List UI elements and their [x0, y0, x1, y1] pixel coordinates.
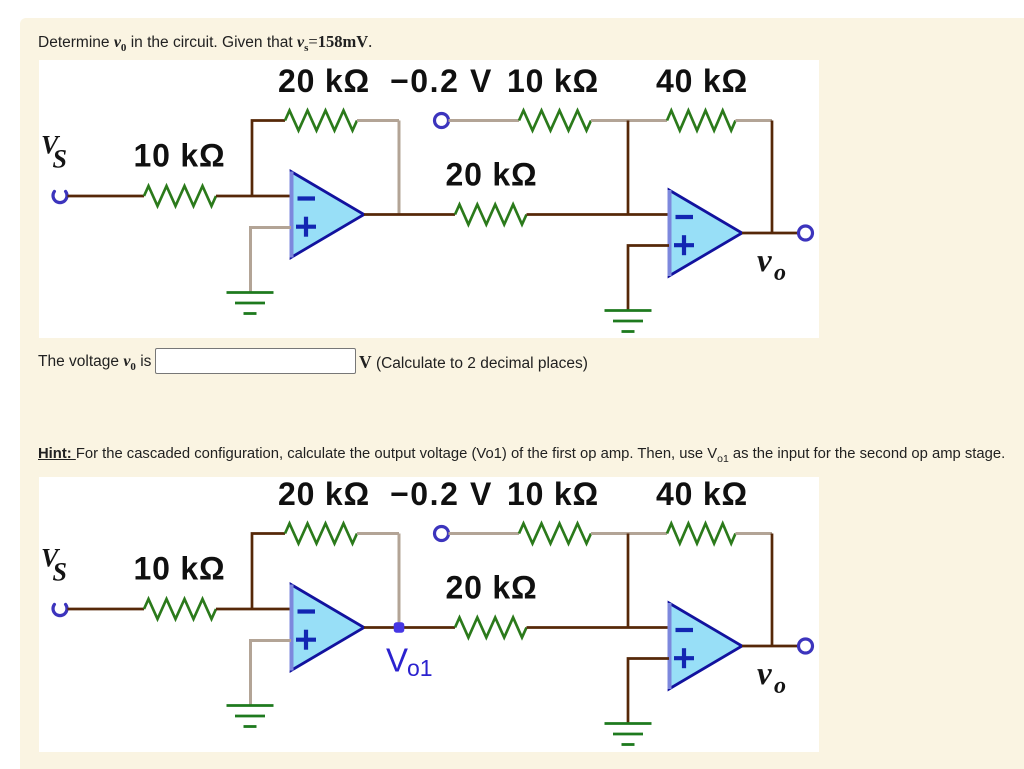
- wire: R2 to U1 output node (tan): [357, 119, 399, 122]
- label Vs source name: [41, 131, 67, 174]
- wire: feedback branch up from input node: [252, 121, 285, 197]
- svg-text:20 kΩ: 20 kΩ: [446, 157, 538, 193]
- label vo output voltage: [757, 243, 786, 286]
- resistor R5b 40k ohm feedback: [667, 524, 736, 544]
- op-amp U2a: [669, 190, 742, 276]
- wire: U1 output to R3: [364, 626, 455, 629]
- resistor R4a 10k ohm: [519, 111, 591, 131]
- resistor R2b 20k ohm feedback: [285, 524, 357, 544]
- resistor R2a 20k ohm feedback: [285, 111, 357, 131]
- wire: U1 output to R3: [364, 213, 455, 216]
- terminal: vo output (open circle): [799, 226, 813, 240]
- op-amp U1b: [291, 585, 364, 671]
- svg-text:V: V: [386, 642, 408, 679]
- wire: feedback down to U1 output (tan): [398, 534, 401, 628]
- wire: R3 to U2 inverting input: [527, 213, 670, 216]
- label Vo1 node voltage: [386, 642, 433, 682]
- resistor R5a 40k ohm feedback: [667, 111, 736, 131]
- svg-text:o: o: [774, 673, 786, 699]
- ground GND2b: [605, 724, 652, 745]
- op-amp U1a: [291, 172, 364, 258]
- wire: feedback branch up from input node: [252, 534, 285, 610]
- ground GND2a: [605, 311, 652, 332]
- svg-text:−0.2 V: −0.2 V: [390, 63, 493, 99]
- resistor R3b 20k ohm interstage: [455, 618, 527, 638]
- svg-text:10 kΩ: 10 kΩ: [134, 138, 226, 174]
- wire: node B down to U2 inverting input: [627, 121, 630, 215]
- ground GND1a: [227, 293, 274, 314]
- problem statement text: [38, 32, 372, 54]
- terminal: vo output (open circle): [799, 639, 813, 653]
- wire: U2 output to vo terminal: [742, 645, 799, 648]
- svg-text:−0.2 V: −0.2 V: [390, 476, 493, 512]
- wire: node B down to U2 inverting input: [627, 534, 630, 628]
- wire: Vs to R1: [68, 608, 145, 611]
- resistor R1a 10k ohm input: [144, 186, 216, 206]
- wire: R1 to U1 inverting input: [216, 195, 291, 198]
- wire: R1 to U1 inverting input: [216, 608, 291, 611]
- wire: U2 noninverting input to ground: [628, 246, 669, 311]
- op-amp U2b: [669, 603, 742, 689]
- answer row: [38, 353, 151, 373]
- svg-text:40 kΩ: 40 kΩ: [656, 63, 748, 99]
- svg-text:S: S: [53, 558, 67, 587]
- wire: R5 to feedback corner (tan): [736, 532, 773, 535]
- resistor R1b 10k ohm input: [144, 599, 216, 619]
- wire: feedback down to U2 output: [771, 121, 774, 234]
- wire: U1 noninverting input to ground (tan): [251, 228, 292, 293]
- wire: feedback down to U1 output (tan): [398, 121, 401, 215]
- wire: U1 noninverting input to ground (tan): [251, 641, 292, 706]
- wire: R4 to node B (tan): [591, 119, 667, 122]
- wire: Vs to R1: [68, 195, 145, 198]
- svg-text:20 kΩ: 20 kΩ: [278, 63, 370, 99]
- svg-text:o: o: [774, 260, 786, 286]
- svg-text:S: S: [53, 145, 67, 174]
- ground GND1b: [227, 706, 274, 727]
- wire: U2 output to vo terminal: [742, 232, 799, 235]
- wire: feedback down to U2 output: [771, 534, 774, 647]
- wire: -0.2V terminal to R4 (tan): [449, 532, 520, 535]
- svg-text:o1: o1: [407, 655, 433, 681]
- wire: U2 noninverting input to ground: [628, 659, 669, 724]
- svg-text:20 kΩ: 20 kΩ: [278, 476, 370, 512]
- terminal: -0.2V source (open circle): [435, 114, 449, 128]
- hint paragraph: [38, 446, 1005, 465]
- terminal: Vs input source (open circle): [53, 191, 67, 202]
- wire: R4 to node B (tan): [591, 532, 667, 535]
- junction node Vo1 (blue dot): [394, 622, 405, 632]
- white canvas: circuit 1: [39, 60, 819, 338]
- resistor R3a 20k ohm interstage: [455, 205, 527, 225]
- svg-text:20 kΩ: 20 kΩ: [446, 570, 538, 606]
- answer input box: [155, 348, 356, 374]
- wire: R5 to feedback corner (tan): [736, 119, 773, 122]
- svg-text:10 kΩ: 10 kΩ: [507, 476, 599, 512]
- wire: R2 to U1 output node (tan): [357, 532, 399, 535]
- svg-text:10 kΩ: 10 kΩ: [507, 63, 599, 99]
- terminal: -0.2V source (open circle): [435, 527, 449, 541]
- resistor R4b 10k ohm: [519, 524, 591, 544]
- white canvas: circuit 2: [39, 477, 819, 752]
- terminal: Vs input source (open circle): [53, 604, 67, 615]
- svg-text:10 kΩ: 10 kΩ: [134, 551, 226, 587]
- svg-text:40 kΩ: 40 kΩ: [656, 476, 748, 512]
- label vo output voltage: [757, 656, 786, 699]
- label Vs source name: [41, 544, 67, 587]
- wire: -0.2V terminal to R4 (tan): [449, 119, 520, 122]
- wire: R3 to U2 inverting input: [527, 626, 670, 629]
- svg-text:v: v: [757, 656, 772, 692]
- svg-text:v: v: [757, 243, 772, 279]
